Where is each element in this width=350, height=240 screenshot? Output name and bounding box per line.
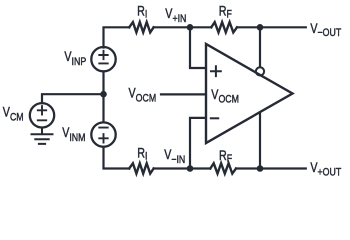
label V-OUT (310, 21, 341, 40)
svg-text:RI: RI (137, 145, 147, 162)
label V+OUT (310, 160, 341, 179)
source VINM (91, 122, 115, 146)
wire (154, 26, 190, 28)
op-amp output bubble (256, 67, 264, 75)
label V-IN (164, 147, 185, 166)
label RI (bottom) (137, 145, 147, 162)
wire (190, 167, 210, 169)
op-amp U1 triangle (206, 44, 293, 143)
svg-text:VINM: VINM (62, 125, 85, 144)
svg-text:RF: RF (219, 148, 232, 166)
op-amp + input marker (211, 66, 221, 76)
wire (104, 27, 130, 47)
svg-text:VOCM: VOCM (129, 85, 157, 104)
svg-text:V−IN: V−IN (164, 147, 185, 166)
op-amp - input marker (211, 117, 218, 119)
source VINP (91, 47, 115, 71)
wire (259, 113, 261, 169)
junction dot bottom feedback node (257, 165, 264, 172)
resistor RI (top) (129, 22, 153, 32)
resistor RI (bottom) (129, 163, 153, 173)
resistor RF (top) (211, 22, 237, 32)
label RF (top) (219, 3, 232, 20)
source VCM (30, 103, 54, 127)
svg-text:VOCM: VOCM (211, 87, 239, 106)
ground (32, 128, 53, 144)
svg-text:V+IN: V+IN (165, 6, 186, 25)
label VOCM (external) (129, 85, 157, 104)
junction dot VCM node (100, 91, 107, 98)
svg-text:V+OUT: V+OUT (310, 160, 341, 179)
resistor RF (bottom) (210, 163, 236, 173)
svg-text:RF: RF (219, 3, 232, 20)
op-amp VOCM pin label (211, 87, 239, 106)
wire (102, 72, 104, 123)
wire (190, 27, 206, 68)
wire (154, 167, 190, 169)
svg-text:RI: RI (137, 4, 147, 21)
wire (161, 93, 206, 95)
node V-IN junction dot (187, 165, 194, 172)
label RF (bottom) (219, 148, 232, 166)
wire (190, 26, 211, 28)
wire (259, 27, 261, 67)
svg-text:VINP: VINP (64, 49, 86, 68)
label VINM (62, 125, 85, 144)
wire (236, 167, 306, 169)
node V+IN junction dot (187, 24, 194, 31)
wire (237, 26, 306, 28)
junction dot top feedback node (257, 24, 264, 31)
label VINP (64, 49, 86, 68)
label V+IN (165, 6, 186, 25)
svg-text:V−OUT: V−OUT (310, 21, 341, 40)
label VCM (3, 105, 24, 124)
svg-text:VCM: VCM (3, 105, 24, 124)
wire (104, 147, 130, 169)
wire (42, 94, 104, 103)
label RI (top) (137, 4, 147, 21)
wire (190, 118, 206, 169)
